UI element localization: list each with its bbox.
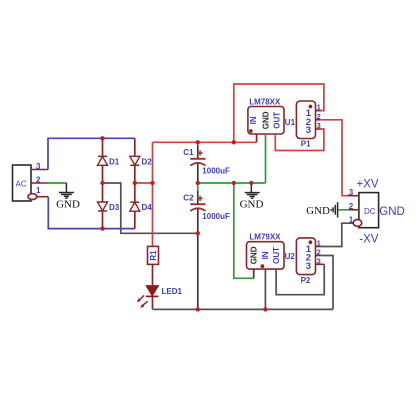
svg-text:D1: D1	[109, 157, 120, 166]
diode D1	[98, 138, 120, 183]
wire U1 OUT to P1 pin 3	[275, 129, 324, 151]
svg-text:2: 2	[349, 202, 354, 211]
svg-text:GND: GND	[240, 198, 264, 210]
wire AC pin2 to ground (green)	[48, 182, 66, 184]
svg-text:1: 1	[349, 215, 354, 224]
wire AC pin3 to top rail (blue)	[48, 138, 135, 169]
svg-text:LED1: LED1	[162, 287, 183, 296]
svg-text:GND: GND	[56, 198, 80, 210]
svg-text:LM79XX: LM79XX	[249, 232, 281, 241]
svg-text:1: 1	[317, 239, 321, 248]
svg-text:D4: D4	[142, 203, 153, 212]
resistor R1	[148, 246, 159, 264]
svg-text:DC: DC	[364, 207, 376, 216]
AC pin 1	[28, 186, 48, 200]
svg-text:2: 2	[36, 175, 41, 184]
AC connector J-AC	[13, 165, 32, 201]
svg-text:C2: C2	[183, 194, 194, 203]
svg-text:P2: P2	[301, 276, 311, 285]
wire loop to P1 pin 1	[234, 84, 324, 142]
svg-text:1000uF: 1000uF	[202, 166, 230, 175]
svg-text:P1: P1	[301, 139, 311, 148]
junction C1 top at red rail	[196, 140, 200, 144]
DC connector	[359, 193, 379, 228]
junction green row at GND symbol	[249, 181, 253, 185]
svg-text:2: 2	[317, 248, 321, 257]
wire C2 bottom to bottom rail	[197, 233, 199, 309]
svg-text:3: 3	[317, 256, 321, 265]
junction U2 IN at bottom rail	[263, 307, 267, 311]
junction D1 top at blue rail	[100, 136, 104, 140]
svg-text:2: 2	[317, 112, 321, 121]
wire AC pin1 to bottom rail (blue)	[48, 197, 135, 229]
wire bridge mid right to riser (red)	[135, 182, 153, 184]
LED LED1	[137, 286, 183, 308]
svg-text:-XV: -XV	[359, 233, 379, 245]
wire U2 IN to bottom rail	[264, 269, 266, 309]
junction green row to U2 GND	[232, 181, 236, 185]
header P2	[296, 238, 315, 285]
P1 pin 2	[316, 112, 321, 121]
svg-text:3: 3	[36, 162, 41, 171]
ground GND2 mid	[240, 183, 264, 210]
svg-text:IN: IN	[261, 251, 270, 259]
P1 pin 3	[316, 121, 321, 130]
wire bridge mid left to C2 bottom (gray)	[103, 183, 198, 233]
DC pin 2	[348, 202, 359, 211]
svg-text:1: 1	[36, 186, 41, 195]
P2 pin 2	[316, 248, 321, 257]
wire P2 pin 2 to bottom rail	[320, 256, 333, 310]
bottom rail (gray)	[153, 308, 334, 310]
svg-text:GND: GND	[379, 206, 405, 218]
DC pin 3	[347, 188, 359, 197]
DC pin 1	[349, 215, 362, 226]
svg-text:OUT: OUT	[272, 112, 281, 129]
svg-text:U1: U1	[285, 118, 296, 127]
wire DC pin 2 to ground (green)	[338, 209, 349, 211]
wire red riser from rail to R1	[152, 142, 154, 246]
svg-text:1: 1	[317, 103, 321, 112]
wire red rail to U1 IN	[153, 141, 257, 143]
svg-text:1000uF: 1000uF	[202, 212, 230, 221]
svg-text:GND: GND	[250, 246, 259, 264]
U2 GND pin stub	[253, 269, 255, 278]
green node row wire	[198, 182, 266, 184]
U1 IN pin stub	[256, 134, 258, 142]
svg-text:IN: IN	[249, 116, 258, 124]
svg-text:3: 3	[306, 261, 311, 272]
wire LED1 to bottom rail	[152, 296, 154, 309]
header P1	[296, 101, 315, 148]
capacitor C1	[183, 142, 230, 183]
svg-text:AC: AC	[16, 180, 27, 189]
junction C2 bottom to bridge negative	[196, 231, 200, 235]
svg-text:3: 3	[349, 188, 354, 197]
diode D3	[98, 183, 120, 229]
AC pin 3	[31, 162, 48, 171]
capacitor C2	[183, 183, 230, 233]
wire green U1 GND down to row	[265, 134, 267, 183]
svg-text:3: 3	[306, 125, 311, 136]
diode D4	[130, 183, 152, 229]
svg-text:+XV: +XV	[357, 178, 379, 190]
junction red rail to P1 riser	[232, 140, 236, 144]
svg-text:R1: R1	[149, 250, 158, 261]
regulator U2 LM79XX	[247, 232, 296, 269]
svg-text:GND: GND	[261, 111, 270, 129]
junction D3 bottom at blue rail	[100, 226, 104, 230]
svg-text:U2: U2	[285, 252, 296, 261]
junction D2/D4 node	[133, 181, 137, 185]
wire R1 to LED1	[152, 264, 154, 285]
svg-text:D3: D3	[109, 203, 120, 212]
junction riser at bridge output	[150, 181, 154, 185]
svg-text:3: 3	[317, 121, 321, 130]
wire P2 pin 1 to DC pin 1	[320, 223, 354, 246]
svg-text:D2: D2	[142, 157, 153, 166]
svg-text:OUT: OUT	[272, 247, 281, 264]
P2 pin 1	[316, 239, 321, 248]
P1 pin 1	[316, 103, 321, 112]
junction C2 branch at bottom rail	[196, 307, 200, 311]
ground GND3 near DC (rotated)	[306, 202, 337, 217]
wire P1 pin 2 to DC pin 3	[320, 120, 353, 196]
AC pin 2	[31, 175, 48, 184]
svg-text:GND: GND	[306, 205, 330, 217]
diode D2	[130, 138, 152, 183]
regulator U1 LM78XX	[248, 98, 296, 135]
junction D1/D3 node	[100, 181, 104, 185]
junction C1/C2 node	[196, 181, 200, 185]
svg-text:LM78XX: LM78XX	[249, 98, 281, 107]
P2 pin 3	[316, 256, 321, 265]
ground GND1 near AC	[56, 183, 80, 210]
wire green row down to U2 GND	[234, 183, 254, 278]
svg-text:C1: C1	[183, 148, 194, 157]
wire U2 OUT to P2 pin 3	[276, 264, 324, 294]
